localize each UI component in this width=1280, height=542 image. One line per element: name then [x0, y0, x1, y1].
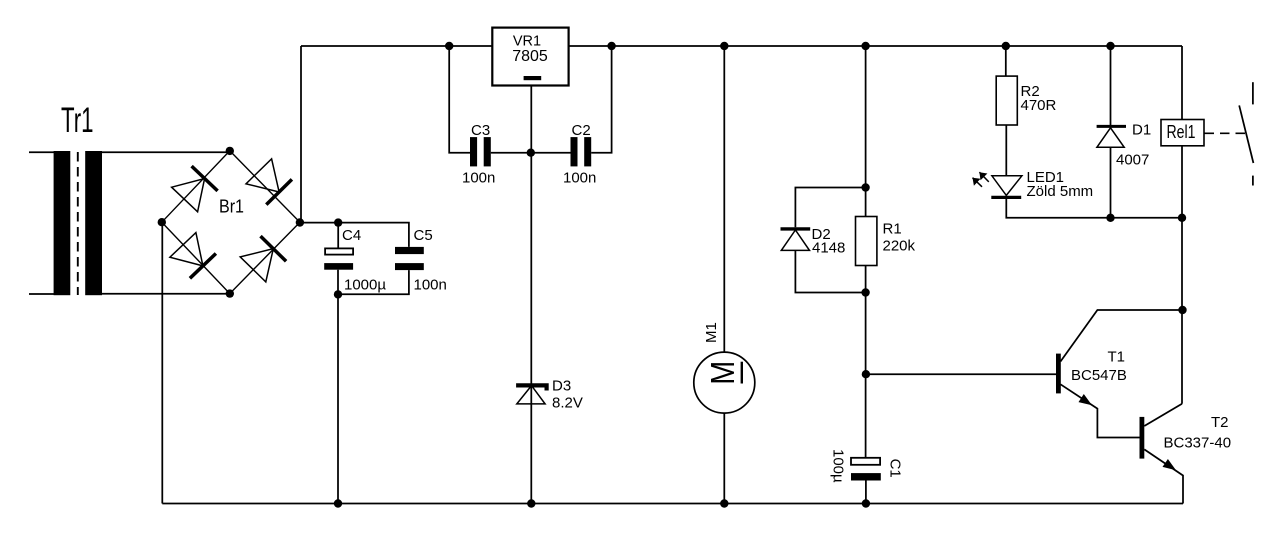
relay actuation dashed link [1205, 132, 1247, 134]
wire bridge diamond edges [162, 151, 300, 294]
node gnd at C4 [334, 499, 342, 507]
wire bridge minus corner down to ground rail [161, 222, 163, 503]
wire Rel1 bottom down to T2 collector [1181, 146, 1183, 404]
node LED/relay branch [1178, 214, 1186, 222]
capacitor C1 (electrolytic) [851, 458, 881, 481]
svg-text:M1: M1 [703, 322, 720, 343]
node bridge plus [296, 218, 304, 226]
svg-text:D3: D3 [552, 378, 571, 395]
node C3/C2/VR1 gnd [527, 149, 535, 157]
wire VR1 ground pin down through D3 to ground rail [530, 86, 532, 504]
wire motor bottom lead [723, 413, 725, 503]
relay coil Rel1 [1161, 120, 1204, 146]
wire C2 branch to top rail [591, 46, 611, 153]
LED1 light emission arrows [973, 172, 989, 187]
relay contact fixed bottom [1252, 176, 1254, 186]
node bridge minus [158, 218, 166, 226]
node rail at C3 [445, 42, 453, 50]
node T1 collector [1178, 306, 1186, 314]
node bridge AC top [226, 147, 234, 155]
wire motor top lead [723, 46, 725, 352]
node C4 top [334, 218, 342, 226]
wire LED1 cathode to relay branch [1006, 197, 1182, 217]
wire D2 bottom lead [795, 250, 865, 292]
bridge diode bottom-left (Br1) [170, 233, 216, 279]
node LED/D1 [1106, 214, 1114, 222]
svg-text:C1: C1 [887, 459, 904, 478]
node rail at R1 [861, 42, 869, 50]
svg-text:100µ: 100µ [830, 449, 847, 483]
wire bridge plus corner up to top rail [300, 46, 302, 222]
svg-text:T2: T2 [1211, 414, 1229, 431]
node rail at M1 [720, 42, 728, 50]
capacitor C2 [571, 137, 592, 166]
wire D1 branch from top rail [1110, 46, 1112, 125]
svg-text:4148: 4148 [812, 240, 845, 257]
wire R1 bottom through junctions down to C1 [865, 266, 867, 458]
wire top rail corner down to Rel1 [1181, 46, 1183, 120]
svg-text:8.2V: 8.2V [552, 395, 583, 412]
zener diode D3 [516, 385, 547, 404]
bridge diode bottom-right (Br1) [240, 236, 286, 282]
wire D1 anode lead [1110, 147, 1112, 218]
capacitor C4 (electrolytic) [324, 248, 353, 269]
bridge diode top-left (Br1) [172, 166, 218, 212]
svg-text:4007: 4007 [1116, 152, 1149, 169]
node rail at C2 [607, 42, 615, 50]
capacitor C3 [470, 137, 491, 166]
wire C4 top lead [337, 223, 339, 249]
diode D1 [1097, 126, 1126, 147]
wire primary bottom [29, 293, 55, 295]
relay contact lever [1239, 105, 1253, 163]
wire centre junction to C2 [531, 152, 571, 154]
transistor T1 BC547B [1056, 310, 1183, 438]
resistor R2 [996, 76, 1017, 125]
svg-text:Br1: Br1 [219, 196, 244, 217]
svg-text:Zöld 5mm: Zöld 5mm [1027, 183, 1094, 200]
svg-text:BC547B: BC547B [1071, 367, 1127, 384]
wire top supply rail [301, 45, 1182, 47]
wire C3 to centre junction [491, 152, 531, 154]
svg-text:100n: 100n [563, 170, 596, 187]
LED LED1 [991, 176, 1022, 198]
relay contact fixed top [1252, 82, 1254, 104]
wire C3 branch from top rail [449, 46, 470, 153]
node C4/C5 bottom [334, 290, 342, 298]
svg-text:100n: 100n [462, 170, 495, 187]
capacitor C5 [395, 247, 424, 270]
node T1 base junction [862, 370, 870, 378]
node D2/R1 bottom [861, 288, 869, 296]
bridge diode top-right (Br1) [246, 159, 292, 205]
transformer Tr1 [54, 151, 102, 295]
node gnd at M1 [720, 499, 728, 507]
node D2/R1 top [861, 183, 869, 191]
svg-text:D1: D1 [1132, 122, 1151, 139]
svg-text:1000µ: 1000µ [344, 277, 386, 294]
svg-text:C4: C4 [342, 227, 361, 244]
diode D2 [781, 229, 811, 251]
regulator VR1 [492, 28, 568, 86]
svg-text:470R: 470R [1021, 97, 1057, 114]
node gnd at D3 [527, 499, 535, 507]
wire C1 bottom lead [865, 481, 867, 504]
resistor R1 [856, 217, 877, 266]
wire C5 bottom lead joining C4 [338, 270, 409, 294]
wire secondary bottom [102, 293, 230, 295]
node rail at R2 [1002, 42, 1010, 50]
svg-text:Rel1: Rel1 [1167, 122, 1196, 142]
wire C4 bottom lead down to ground rail [337, 270, 339, 504]
svg-text:100n: 100n [414, 277, 447, 294]
svg-text:M: M [704, 361, 741, 385]
svg-text:T1: T1 [1108, 349, 1126, 366]
transistor T2 BC337-40 [1140, 404, 1184, 504]
node gnd at C1 [862, 499, 870, 507]
svg-text:7805: 7805 [512, 48, 548, 65]
svg-text:BC337-40: BC337-40 [1164, 435, 1232, 452]
svg-text:R1: R1 [883, 221, 902, 238]
wire R1 branch from top rail [865, 46, 867, 217]
node rail at D1 [1106, 42, 1114, 50]
wire primary top [29, 151, 55, 153]
wire plus corner to C4 and C5 [300, 223, 409, 247]
wire R2 branch from top rail [1005, 46, 1007, 76]
svg-text:C3: C3 [471, 122, 490, 139]
wire base junction to T1 base [866, 373, 1056, 375]
motor M1 [694, 352, 755, 413]
svg-text:C2: C2 [572, 122, 591, 139]
svg-text:Tr1: Tr1 [61, 101, 94, 140]
svg-text:220k: 220k [883, 238, 916, 255]
wire D2 top lead [795, 188, 865, 228]
wire R2 to LED1 [1005, 125, 1007, 176]
wire secondary top [102, 151, 230, 152]
wire ground rail (bottom) [162, 503, 1183, 505]
svg-text:C5: C5 [414, 227, 433, 244]
node bridge AC bottom [226, 289, 234, 297]
